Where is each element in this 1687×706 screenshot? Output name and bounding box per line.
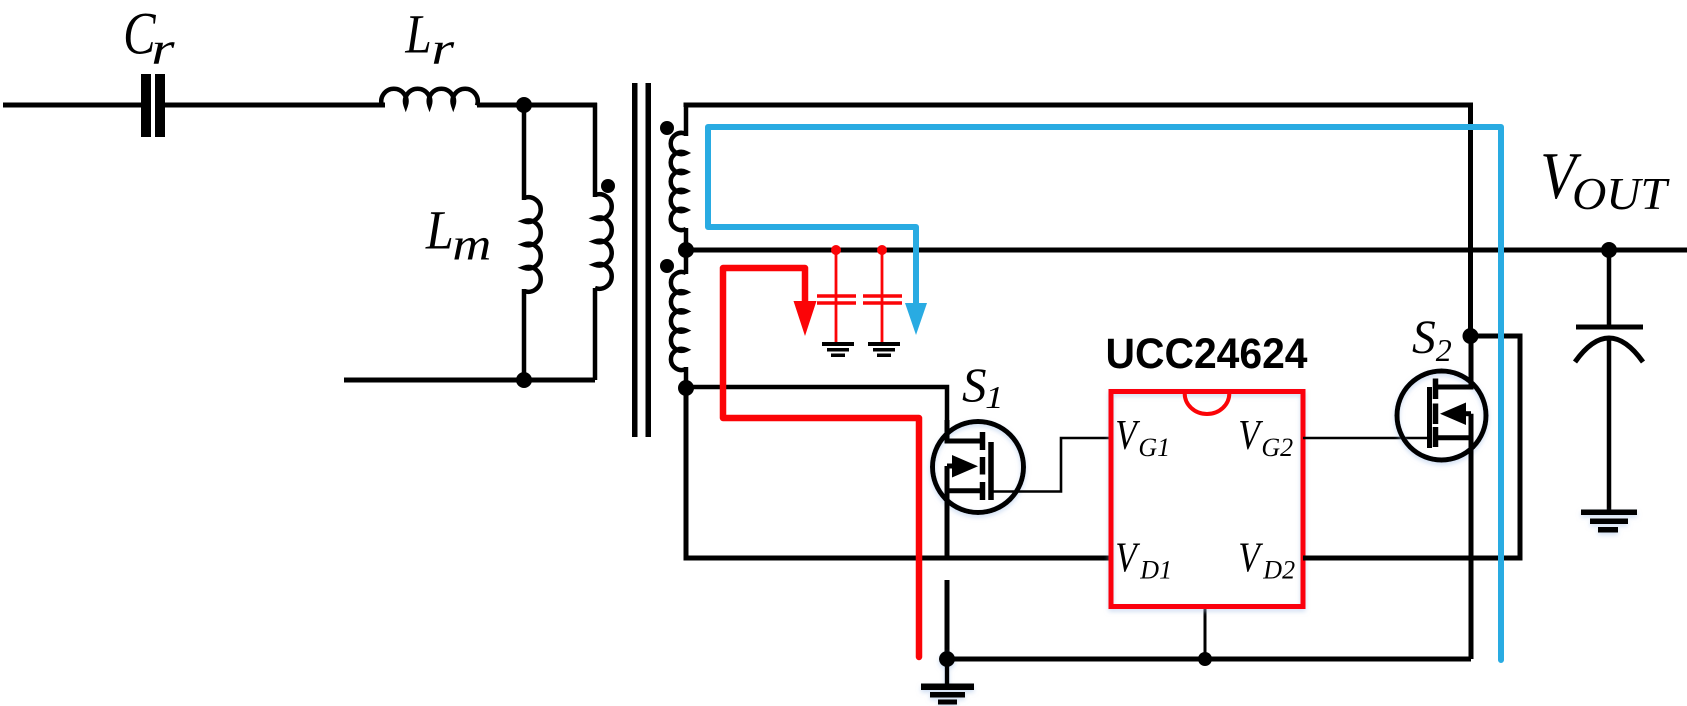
- wire S1 gate to VG1: [991, 438, 1111, 492]
- wire input left: [3, 103, 141, 108]
- svg-text:S: S: [962, 357, 987, 412]
- svg-text:D1: D1: [1139, 556, 1172, 585]
- secondary upper phase dot: [660, 121, 674, 135]
- S2 drain stub: [1438, 336, 1471, 387]
- wire Lr to node A: [477, 103, 597, 108]
- output capacitor: [1575, 242, 1643, 533]
- S1 source to ground rail: [945, 580, 950, 659]
- svg-text:OUT: OUT: [1572, 168, 1670, 219]
- capacitor Cr plates: [141, 74, 165, 137]
- svg-text:V: V: [1238, 535, 1263, 582]
- snubber capacitor 2 (red): [863, 245, 902, 342]
- svg-text:1: 1: [985, 380, 1003, 415]
- node A junction dot: [516, 97, 532, 113]
- IC U1 UCC24624 box: [1111, 392, 1303, 607]
- red arrowhead: [794, 301, 817, 336]
- svg-text:G1: G1: [1138, 433, 1170, 462]
- transformer primary vertical leads: [524, 105, 595, 197]
- ground main (below S1): [921, 651, 974, 705]
- blue arrowhead: [905, 303, 927, 335]
- wire VD2: [1303, 336, 1520, 558]
- wire VD1 from transformer bottom: [686, 388, 1111, 558]
- svg-text:UCC24624: UCC24624: [1106, 329, 1309, 377]
- transformer secondary upper winding: [684, 105, 689, 136]
- svg-text:m: m: [452, 220, 491, 270]
- svg-text:G2: G2: [1261, 433, 1293, 462]
- wire bottom primary: [344, 378, 595, 383]
- snubber capacitor 1 (red): [817, 245, 856, 342]
- wire VOUT rail: [686, 248, 1687, 253]
- IC pin-1 notch: [1185, 394, 1230, 415]
- S2 channel dashes: [1433, 379, 1439, 448]
- transistor S1 (MOSFET): [933, 420, 1024, 659]
- S2 gate bar: [1427, 387, 1432, 448]
- S1 gate bar: [988, 442, 994, 500]
- UCC ground pin: [1204, 609, 1207, 659]
- junction dot VOUT: [1601, 242, 1617, 258]
- transformer core: [632, 83, 651, 437]
- junction dot UCC ground: [1198, 652, 1212, 666]
- svg-text:S: S: [1412, 312, 1436, 364]
- secondary bottom junction dot: [678, 380, 694, 396]
- ground (snubber cap 2): [868, 342, 900, 357]
- S2 body arrow: [1463, 411, 1471, 416]
- wire cap to Lr: [165, 103, 385, 108]
- svg-text:V: V: [1238, 412, 1263, 459]
- ground (output cap): [1581, 510, 1637, 533]
- secondary lower phase dot: [660, 259, 674, 273]
- red annotation current path: [723, 268, 919, 657]
- S1 circle: [933, 422, 1024, 513]
- transformer secondary lower winding: [684, 250, 689, 274]
- svg-text:r: r: [431, 23, 454, 74]
- transistor S2 (MOSFET): [1397, 336, 1486, 659]
- S2 source stub: [1436, 435, 1471, 440]
- node B junction dot: [516, 372, 532, 388]
- svg-text:V: V: [1115, 412, 1140, 459]
- S1 drain stub: [947, 420, 980, 441]
- S1 channel dashes: [980, 432, 986, 500]
- ground (snubber cap 1): [822, 342, 854, 357]
- S1 source stub: [947, 488, 982, 493]
- svg-text:r: r: [151, 22, 175, 74]
- wire ground rail bottom: [947, 657, 1471, 662]
- inductor Lm coil: [524, 197, 541, 292]
- S2 circle: [1397, 371, 1486, 460]
- wire secondary bottom to S1 drain: [686, 387, 947, 441]
- inductor Lm vertical leads: [522, 105, 527, 200]
- junction dot S2 drain: [1463, 328, 1479, 344]
- blue annotation current path: [708, 127, 1501, 660]
- svg-text:D2: D2: [1262, 556, 1295, 585]
- svg-text:L: L: [404, 4, 431, 65]
- transformer primary winding: [595, 194, 612, 289]
- transformer primary phase dot: [601, 179, 615, 193]
- wire VG2 to S2 gate: [1303, 437, 1430, 440]
- S1 body arrow: [947, 464, 956, 469]
- svg-text:L: L: [425, 200, 454, 261]
- secondary center tap dot: [678, 242, 694, 258]
- svg-text:V: V: [1115, 535, 1140, 582]
- svg-text:2: 2: [1436, 332, 1452, 368]
- inductor Lr: [381, 89, 477, 106]
- wire secondary top to S2 drain rail: [686, 105, 1471, 336]
